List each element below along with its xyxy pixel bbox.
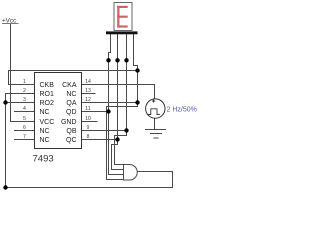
svg-text:VCC: VCC <box>40 119 55 126</box>
junction display pin3 net <box>124 58 128 62</box>
svg-text:14: 14 <box>85 79 91 85</box>
wire QC pin 8 row <box>82 139 118 141</box>
svg-text:5: 5 <box>23 116 26 122</box>
wire QA pin 12 row <box>82 102 138 104</box>
svg-text:7: 7 <box>23 134 26 140</box>
junction RO2 pin 3 <box>3 100 7 104</box>
label 7493 <box>33 153 54 164</box>
junction reset net bottom <box>3 185 7 189</box>
svg-text:13: 13 <box>85 88 91 94</box>
svg-text:NC: NC <box>66 91 76 98</box>
svg-text:NC: NC <box>40 128 50 135</box>
junction display pin1 net <box>106 58 110 62</box>
svg-text:7493: 7493 <box>33 153 54 164</box>
svg-text:QB: QB <box>66 128 76 135</box>
svg-text:1: 1 <box>23 79 26 85</box>
svg-text:2 Hz/50%: 2 Hz/50% <box>167 106 197 113</box>
wire clock to ground <box>154 118 156 129</box>
IC U1 7493 <box>35 73 82 149</box>
svg-text:NC: NC <box>40 137 50 144</box>
wire Vcc vertical to pin 5 VCC <box>11 24 35 122</box>
wire display pin3 to QB and gate input 1 <box>115 34 127 165</box>
svg-text:12: 12 <box>85 97 91 103</box>
svg-text:4: 4 <box>23 106 26 112</box>
ground <box>145 130 166 139</box>
clock source V1 <box>146 99 165 118</box>
junction QA pin 12 <box>135 100 139 104</box>
wire reset net: pin2 RO1 pin3 RO2 left vertical bottom run and gate output <box>6 94 173 188</box>
svg-text:QD: QD <box>66 109 77 116</box>
wire pin 6 NC stub <box>14 130 35 132</box>
junction QD pin 11 <box>106 109 110 113</box>
wire pin 4 NC stub <box>14 111 35 113</box>
svg-text:10: 10 <box>85 116 91 122</box>
svg-text:8: 8 <box>87 134 90 140</box>
junction QB pin 9 <box>124 128 128 132</box>
junction QA net top <box>135 68 139 72</box>
svg-text:3: 3 <box>23 97 26 103</box>
wire QA net long top horizontal to CKB pin 1 <box>9 71 138 85</box>
wire display pin2 to QC and gate input 2 <box>112 34 124 170</box>
wire display pin1 to QD and gate input 3 <box>109 34 124 175</box>
junction QC pin 8 <box>115 137 119 141</box>
svg-text:6: 6 <box>23 125 26 131</box>
wire pin 13 NC stub <box>82 93 96 95</box>
power symbol +Vcc <box>2 17 19 24</box>
svg-text:QC: QC <box>66 137 77 144</box>
svg-text:9: 9 <box>87 125 90 131</box>
label 2 Hz/50% <box>167 106 197 113</box>
svg-text:CKA: CKA <box>62 82 77 89</box>
wire pin 10 GND stub <box>82 121 98 123</box>
svg-text:11: 11 <box>85 106 90 112</box>
svg-text:2: 2 <box>23 88 26 94</box>
svg-text:GND: GND <box>61 119 77 126</box>
wire QB pin 9 row <box>82 130 127 132</box>
wire pin 7 NC stub <box>14 139 35 141</box>
svg-text:RO1: RO1 <box>40 91 55 98</box>
wire CKA pin 14 to clock <box>82 85 155 99</box>
AND gate U3 <box>124 165 138 181</box>
wire display pin4 to QA and gate input 4 <box>107 34 138 180</box>
svg-text:NC: NC <box>40 109 50 116</box>
svg-text:RO2: RO2 <box>40 100 55 107</box>
display U2 seven-segment hex <box>106 3 138 35</box>
wire QD pin 11 row <box>82 111 109 113</box>
junction display pin2 net <box>115 58 119 62</box>
svg-text:QA: QA <box>66 100 76 107</box>
svg-text:CKB: CKB <box>40 82 55 89</box>
